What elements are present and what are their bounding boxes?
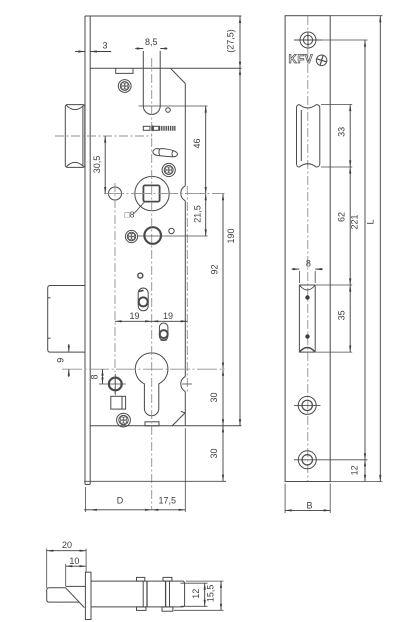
dim 10	[66, 565, 86, 567]
lock case outline	[90, 68, 241, 426]
oval slot F with pin	[138, 288, 148, 311]
dim 12 right view	[364, 460, 366, 482]
ext bottom view right dims	[174, 581, 224, 610]
top screw hole	[294, 32, 322, 48]
ext right view bottom hole to 12 line	[321, 459, 368, 461]
svg-text:17,5: 17,5	[159, 496, 177, 506]
svg-text:35: 35	[336, 310, 346, 320]
dim 221	[364, 40, 366, 460]
deadbolt (edge view)	[48, 286, 85, 353]
cylinder centerline	[62, 368, 225, 370]
svg-text:10: 10	[69, 556, 79, 566]
svg-text:62: 62	[336, 212, 346, 222]
phillips screw P2	[162, 163, 175, 176]
dim 8 right view	[292, 268, 324, 270]
svg-text:92: 92	[210, 264, 220, 274]
svg-text:(27,5): (27,5)	[225, 29, 235, 53]
latch body behind plate (plan)	[91, 581, 185, 607]
ext case bottom 30	[84, 480, 226, 482]
svg-text:8,5: 8,5	[145, 37, 158, 47]
phillips screw P4	[117, 413, 131, 427]
dim 3	[75, 51, 111, 53]
right edge notch at follower height	[181, 186, 185, 201]
svg-text:30: 30	[209, 448, 219, 458]
dim 21,5	[205, 194, 207, 236]
svg-text:21,5: 21,5	[193, 205, 203, 223]
faceplate strip (plan)	[85, 572, 91, 619]
svg-text:12: 12	[191, 589, 201, 599]
dim 19 19	[115, 320, 152, 322]
oval slot G with pin	[159, 323, 168, 340]
svg-text:20: 20	[62, 540, 72, 550]
svg-text:9: 9	[56, 358, 66, 363]
cylinder fixing hole (thick)	[144, 227, 161, 244]
svg-text:30: 30	[209, 392, 219, 402]
svg-text:L: L	[366, 219, 376, 224]
vertical centerline main	[151, 58, 153, 510]
phillips symbol next to logo	[316, 55, 327, 66]
hole left of follower	[109, 187, 122, 200]
lever / pawl detail	[153, 149, 178, 157]
dim B	[285, 509, 330, 511]
ext right view 35 dim	[316, 285, 352, 352]
vertical centerline left holes	[114, 183, 116, 394]
case bottom tab	[145, 422, 159, 426]
dim 92	[222, 194, 224, 370]
svg-text:3: 3	[102, 41, 107, 51]
svg-text:19: 19	[163, 311, 173, 321]
dim 8 (cylinder to hole)	[102, 369, 104, 384]
svg-text:12: 12	[350, 465, 360, 475]
small hole D	[169, 228, 174, 233]
svg-text:221: 221	[350, 214, 360, 229]
svg-text:46: 46	[192, 138, 202, 148]
svg-text:B: B	[306, 501, 312, 511]
latch nose (plan)	[47, 586, 86, 607]
svg-text:□8: □8	[125, 210, 135, 220]
latch bolt front view	[297, 105, 320, 167]
svg-text:8: 8	[90, 374, 100, 379]
dim 20	[47, 550, 86, 552]
bottom screw hole 1	[294, 396, 321, 414]
svg-text:D: D	[117, 496, 124, 506]
dim (27,5)	[239, 16, 241, 68]
euro profile cylinder hole	[135, 353, 168, 416]
ext 20/10 dims bottom view	[47, 549, 86, 589]
follower centerline	[104, 193, 225, 195]
svg-text:15,5: 15,5	[205, 585, 215, 603]
phillips screw P3	[125, 230, 137, 242]
top slot (8.5 wide)	[143, 51, 160, 115]
ext right view top hole to 221 line	[321, 39, 368, 41]
dim 190	[239, 68, 241, 426]
dim 35	[349, 285, 351, 352]
bottom-right internal diagonal	[172, 411, 185, 426]
ext right view B dim	[285, 484, 330, 514]
ext D dim left/right	[86, 428, 186, 512]
dim 33	[349, 105, 351, 168]
svg-text:19: 19	[129, 311, 139, 321]
dim 15,5 bottom view	[220, 581, 222, 610]
spring cage (plan)	[137, 577, 173, 611]
ext right view plate top/bottom to L line	[330, 16, 382, 482]
faceplate outline	[285, 16, 330, 482]
case top tab	[116, 68, 133, 73]
dim 9	[68, 344, 70, 377]
ext hole (115.3,384) cross	[99, 374, 126, 395]
faceplate edge view	[85, 16, 242, 484]
dim L	[379, 16, 381, 482]
leader line for square8	[134, 201, 145, 213]
dim 30 lower	[222, 426, 224, 482]
ext latch front to 33 dim	[321, 105, 352, 168]
svg-text:33: 33	[336, 127, 346, 137]
dim 30 upper	[222, 369, 224, 426]
follower (square spindle hub)	[135, 176, 169, 210]
spring slider detail	[143, 126, 175, 131]
small hole E	[138, 273, 143, 278]
right view centerline	[307, 16, 309, 482]
hole below-left of cylinder (thick)	[109, 378, 122, 391]
ext right view slot 8 dim	[299, 271, 315, 283]
small square hole H	[111, 396, 126, 409]
PZ cylinder slot front view	[299, 285, 315, 352]
ext thick circle C	[138, 235, 208, 237]
small hole right of slot	[166, 108, 171, 113]
svg-text:8: 8	[306, 259, 311, 269]
dim 8,5	[135, 48, 167, 50]
vertical centerline right notches	[186, 186, 188, 392]
right edge notch at cylinder height	[181, 377, 185, 392]
bottom screw hole 2	[294, 451, 321, 469]
dim 46	[205, 106, 207, 194]
latch bolt (edge view)	[65, 105, 85, 168]
svg-text:190: 190	[226, 228, 236, 243]
latch centerline	[55, 135, 152, 137]
ext slot arc center	[139, 105, 208, 107]
dim 30,5	[104, 136, 106, 194]
svg-text:KFV: KFV	[289, 54, 314, 66]
dim D / 17,5	[84, 509, 90, 511]
ext notch2 cross	[182, 383, 192, 385]
dim 62	[349, 167, 351, 285]
dim 12 bottom view	[204, 583, 206, 606]
phillips screw P1	[118, 80, 131, 93]
svg-text:30,5: 30,5	[92, 156, 102, 174]
